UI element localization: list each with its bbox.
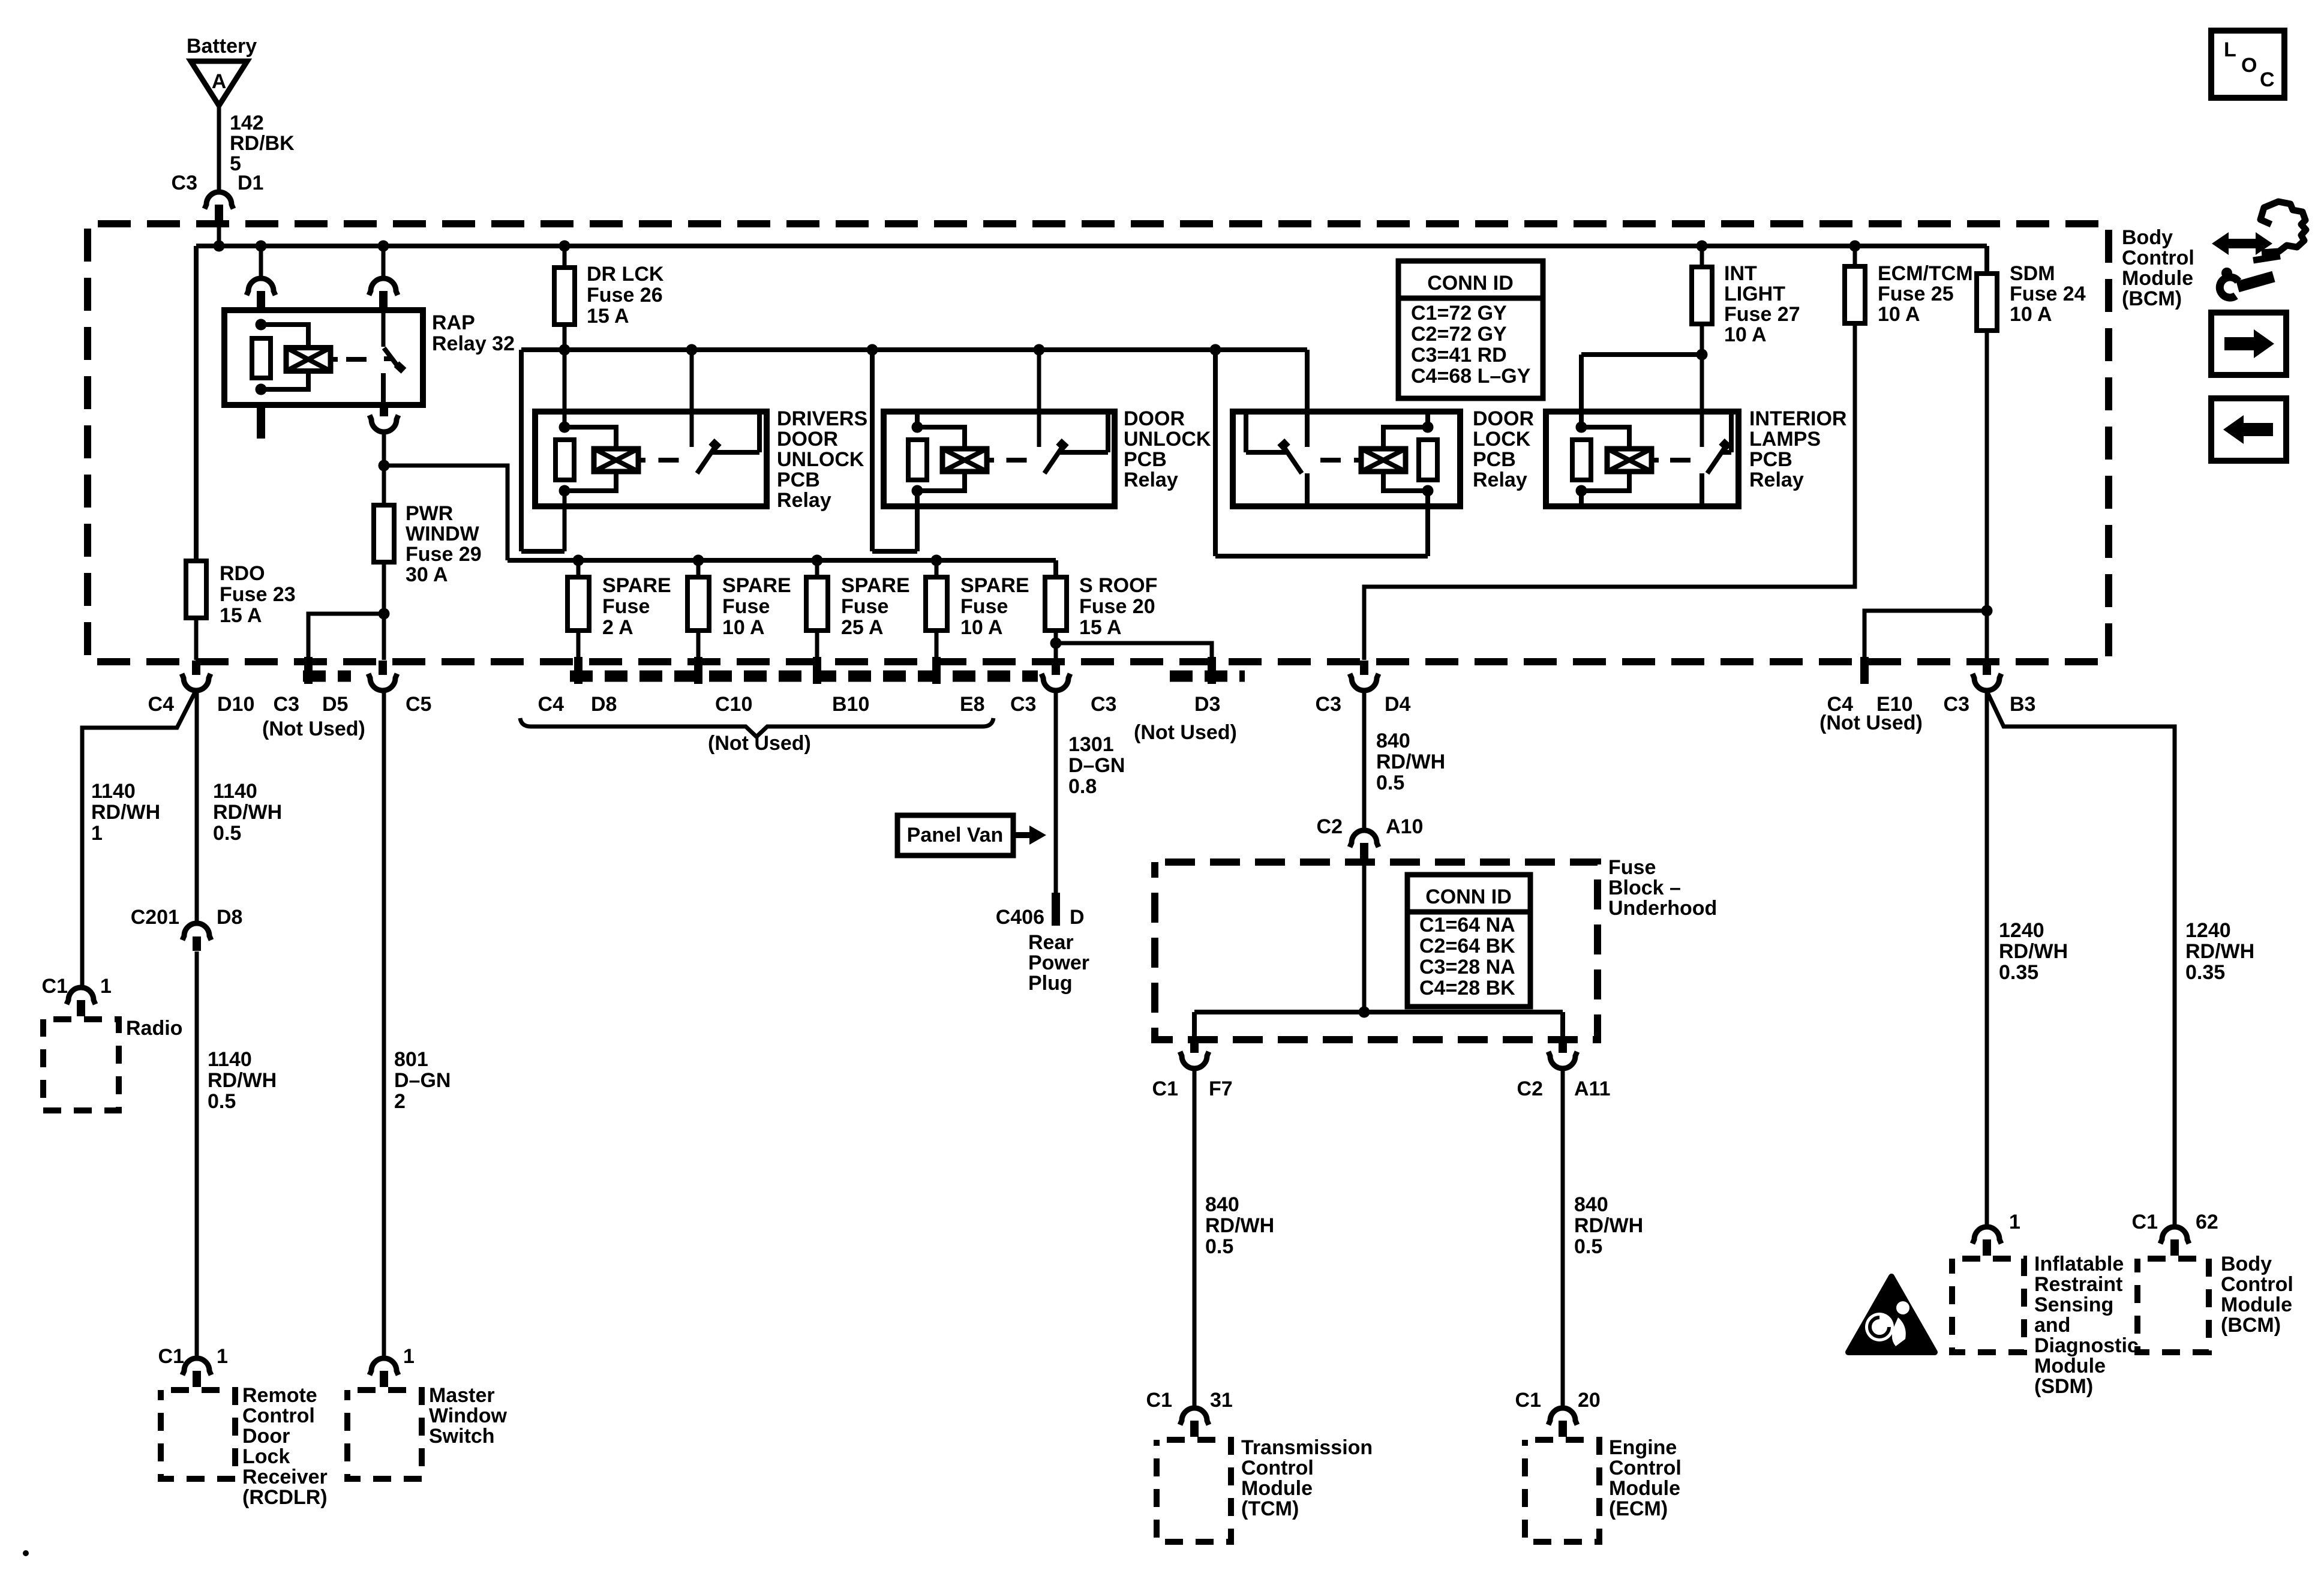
fuse SPARE 2 A xyxy=(568,560,671,639)
svg-text:C: C xyxy=(2260,68,2275,91)
unused connector strip dashes xyxy=(303,671,1245,682)
CONN ID table BCM xyxy=(1398,261,1543,398)
svg-text:Relay: Relay xyxy=(777,489,831,512)
svg-text:Fuse: Fuse xyxy=(960,595,1008,618)
svg-text:C3: C3 xyxy=(172,172,197,194)
svg-text:C3=41 RD: C3=41 RD xyxy=(1411,344,1507,367)
svg-text:Lock: Lock xyxy=(242,1445,290,1468)
wire bus to relay1 switch xyxy=(690,350,694,447)
wire to not-used pin E10 xyxy=(1864,611,1987,660)
svg-text:Module: Module xyxy=(2221,1293,2292,1316)
svg-text:UNLOCK: UNLOCK xyxy=(1124,428,1211,451)
wire bus loop to relay3 coil return xyxy=(1215,350,1428,556)
arrow right legend box xyxy=(2211,313,2286,375)
connector C1 pin 1 RCDLR xyxy=(158,1345,228,1387)
svg-text:Fuse: Fuse xyxy=(722,595,770,618)
svg-text:SPARE: SPARE xyxy=(722,574,791,597)
wire RAP output to spare fuse bus xyxy=(384,466,508,560)
svg-text:C3: C3 xyxy=(1316,693,1341,716)
svg-text:RAP: RAP xyxy=(432,311,475,334)
junction spare fuse 4 xyxy=(931,555,942,566)
svg-text:1: 1 xyxy=(91,822,103,845)
svg-text:15 A: 15 A xyxy=(220,604,262,627)
svg-text:(Not Used): (Not Used) xyxy=(708,732,811,755)
connector RAP relay coil input xyxy=(247,246,275,307)
svg-text:15 A: 15 A xyxy=(587,305,629,328)
svg-text:INTERIOR: INTERIOR xyxy=(1749,407,1846,430)
svg-text:Fuse: Fuse xyxy=(841,595,888,618)
svg-text:Module: Module xyxy=(1241,1477,1313,1500)
svg-text:L: L xyxy=(2224,38,2236,61)
svg-text:31: 31 xyxy=(1210,1389,1233,1412)
svg-text:Window: Window xyxy=(429,1404,508,1427)
wire DR LCK to relay1 coil xyxy=(563,350,567,427)
wire to not-used pin D3 xyxy=(1056,643,1212,660)
connector C3 pin D1 into BCM xyxy=(172,172,264,244)
svg-text:Fuse: Fuse xyxy=(1608,856,1656,879)
svg-text:CONN ID: CONN ID xyxy=(1425,885,1512,908)
connector C1 pin 1 Radio xyxy=(42,975,112,1016)
wire 142 RD/BK from battery xyxy=(217,106,221,190)
svg-text:LIGHT: LIGHT xyxy=(1724,283,1785,305)
svg-text:RD/WH: RD/WH xyxy=(1574,1214,1643,1237)
connector RAP switch output xyxy=(370,402,398,466)
Body Control Module (BCM) dashed outline xyxy=(88,224,2109,662)
connector C4 pin D10 xyxy=(148,661,255,716)
svg-text:O: O xyxy=(2241,54,2257,77)
svg-text:(Not Used): (Not Used) xyxy=(1134,721,1237,744)
pin C3 D5 not used xyxy=(262,657,365,740)
label Rear Power Plug xyxy=(1028,931,1089,995)
svg-text:1301: 1301 xyxy=(1068,733,1114,756)
Remote Control Door Lock Receiver (RCDLR) box xyxy=(161,1384,328,1509)
wire 1240 RD/WH 0.35 to SDM xyxy=(1987,690,2068,1224)
fuse SDM Fuse 24 10A xyxy=(1977,262,2086,331)
junction bus DR LCK xyxy=(559,241,571,252)
wire 1140 RD/WH 0.5 to C201 xyxy=(197,690,282,923)
svg-text:(RCDLR): (RCDLR) xyxy=(242,1486,328,1509)
svg-text:Fuse 23: Fuse 23 xyxy=(220,583,296,606)
fuse INT LIGHT Fuse 27 10A xyxy=(1692,246,1800,346)
svg-text:10 A: 10 A xyxy=(1724,323,1767,346)
svg-text:C1: C1 xyxy=(1152,1077,1178,1100)
svg-text:S ROOF: S ROOF xyxy=(1079,574,1157,597)
junction bus relay2 switch xyxy=(1034,344,1045,356)
svg-text:A11: A11 xyxy=(1574,1077,1611,1100)
svg-text:62: 62 xyxy=(2196,1211,2218,1233)
svg-text:Diagnostic: Diagnostic xyxy=(2034,1334,2139,1357)
svg-text:RD/BK: RD/BK xyxy=(230,132,295,155)
svg-text:0.5: 0.5 xyxy=(1376,772,1404,794)
svg-text:1: 1 xyxy=(100,975,112,998)
svg-text:Master: Master xyxy=(429,1384,495,1407)
wire bus loop to relay2 coil return xyxy=(872,350,917,551)
svg-text:Battery: Battery xyxy=(187,35,257,58)
svg-text:840: 840 xyxy=(1205,1193,1239,1216)
svg-text:LOCK: LOCK xyxy=(1473,428,1531,451)
connector pin 1 SDM xyxy=(1972,1211,2020,1256)
svg-text:10 A: 10 A xyxy=(960,616,1003,639)
svg-text:Sensing: Sensing xyxy=(2034,1293,2113,1316)
svg-text:PCB: PCB xyxy=(1124,448,1167,471)
svg-text:Fuse 25: Fuse 25 xyxy=(1878,283,1954,305)
svg-text:C3: C3 xyxy=(274,693,299,716)
Engine Control Module (ECM) box xyxy=(1525,1436,1682,1542)
wire to not-used pin D5 xyxy=(308,614,384,660)
wire INT LIGHT to relay4 xyxy=(1581,324,1702,447)
junction spare fuse 3 xyxy=(812,555,823,566)
svg-text:E8: E8 xyxy=(960,693,985,716)
svg-text:2: 2 xyxy=(394,1090,406,1113)
svg-text:15 A: 15 A xyxy=(1079,616,1122,639)
svg-text:Module: Module xyxy=(1609,1477,1680,1500)
svg-text:1140: 1140 xyxy=(208,1048,252,1071)
svg-text:Radio: Radio xyxy=(126,1017,182,1040)
svg-text:Switch: Switch xyxy=(429,1425,495,1448)
svg-text:INT: INT xyxy=(1724,262,1757,285)
svg-text:Relay 32: Relay 32 xyxy=(432,332,515,355)
relay INTERIOR LAMPS PCB Relay xyxy=(1546,407,1846,508)
svg-text:Body: Body xyxy=(2122,226,2173,249)
svg-text:RD/WH: RD/WH xyxy=(1376,751,1445,773)
brace not used group xyxy=(520,718,993,737)
svg-text:0.5: 0.5 xyxy=(1205,1235,1233,1258)
svg-text:DR LCK: DR LCK xyxy=(587,263,664,286)
svg-text:Relay: Relay xyxy=(1473,469,1527,491)
junction bus relay3 loop xyxy=(1210,344,1221,356)
svg-text:RD/WH: RD/WH xyxy=(208,1069,277,1092)
svg-text:Module: Module xyxy=(2122,267,2193,290)
svg-text:Block –: Block – xyxy=(1608,876,1681,899)
svg-text:(TCM): (TCM) xyxy=(1241,1497,1299,1520)
svg-text:30 A: 30 A xyxy=(406,563,448,586)
svg-text:20: 20 xyxy=(1578,1389,1601,1412)
svg-text:C2=64 BK: C2=64 BK xyxy=(1419,935,1515,957)
svg-text:Fuse 24: Fuse 24 xyxy=(2010,283,2086,305)
svg-text:D1: D1 xyxy=(238,172,263,194)
connector C1 pin 31 TCM xyxy=(1146,1389,1233,1437)
svg-text:Fuse: Fuse xyxy=(602,595,650,618)
wire spare fuse bus xyxy=(508,560,1056,577)
svg-text:0.35: 0.35 xyxy=(1999,961,2038,984)
wire 840 RD/WH 0.5 to ECM xyxy=(1563,1069,1643,1406)
hand with wrench icon xyxy=(2212,202,2306,298)
labels spare connector pins xyxy=(538,693,1037,716)
pin C4 E10 not used xyxy=(1819,657,1923,734)
junction RAP output to spare bus xyxy=(379,460,390,472)
svg-text:Fuse 20: Fuse 20 xyxy=(1079,595,1155,618)
svg-text:Fuse 29: Fuse 29 xyxy=(406,543,482,566)
pin spare fuse 3 not used xyxy=(813,631,821,684)
svg-text:WINDW: WINDW xyxy=(406,523,480,545)
fuse ECM/TCM Fuse 25 10A xyxy=(1845,246,1973,326)
svg-text:1: 1 xyxy=(217,1345,228,1368)
wire 1140 RD/WH 1 to Radio xyxy=(82,690,196,985)
svg-text:C5: C5 xyxy=(406,693,431,716)
pin spare fuse 4 not used xyxy=(932,631,941,684)
wire bus to relay2 switch xyxy=(1037,350,1041,447)
svg-text:C4: C4 xyxy=(148,693,175,716)
label Body Control Module (BCM) xyxy=(2122,226,2194,310)
connector C1 pin 62 BCM xyxy=(2132,1211,2218,1256)
svg-text:PCB: PCB xyxy=(1749,448,1792,471)
svg-text:A10: A10 xyxy=(1386,815,1423,838)
svg-text:10 A: 10 A xyxy=(1878,303,1920,326)
label wire 142 RD/BK 5 xyxy=(230,112,295,175)
fuse S ROOF Fuse 20 15A xyxy=(1045,574,1157,639)
svg-text:Fuse 26: Fuse 26 xyxy=(587,284,663,307)
svg-text:C1: C1 xyxy=(42,975,68,998)
LOC legend box xyxy=(2211,31,2284,98)
connector C1 pin 20 ECM xyxy=(1515,1389,1601,1437)
svg-text:D–GN: D–GN xyxy=(1068,754,1125,777)
svg-text:D: D xyxy=(1070,906,1085,929)
svg-text:C1=72 GY: C1=72 GY xyxy=(1411,302,1507,325)
svg-text:SDM: SDM xyxy=(2010,262,2055,285)
svg-text:SPARE: SPARE xyxy=(960,574,1029,597)
svg-text:0.5: 0.5 xyxy=(1574,1235,1602,1258)
svg-text:C1: C1 xyxy=(1515,1389,1541,1412)
svg-text:Restraint: Restraint xyxy=(2034,1273,2122,1296)
svg-text:Body: Body xyxy=(2221,1253,2272,1275)
Transmission Control Module (TCM) box xyxy=(1157,1436,1373,1542)
svg-text:0.5: 0.5 xyxy=(213,822,241,845)
label Fuse Block Underhood xyxy=(1608,856,1717,920)
wire PWR WINDW fuse to C5 xyxy=(382,562,386,660)
svg-text:1: 1 xyxy=(403,1345,415,1368)
svg-text:Panel Van: Panel Van xyxy=(907,824,1004,846)
arrow left legend box xyxy=(2211,398,2286,461)
svg-text:142: 142 xyxy=(230,112,264,134)
wire ECM/TCM fuse to connector D4 xyxy=(1364,323,1855,660)
svg-text:Plug: Plug xyxy=(1028,972,1073,995)
svg-text:A: A xyxy=(212,70,227,93)
Fuse Block Underhood dashed outline xyxy=(1155,862,1598,1040)
relay DRIVERS DOOR UNLOCK PCB Relay xyxy=(535,407,867,512)
svg-text:D5: D5 xyxy=(322,693,348,716)
junction fuse block split xyxy=(1359,1007,1370,1018)
svg-text:Control: Control xyxy=(1241,1457,1314,1479)
wire S ROOF fuse output xyxy=(1054,631,1058,660)
svg-text:Power: Power xyxy=(1028,951,1089,974)
connector C3 pin D4 xyxy=(1316,661,1411,716)
svg-text:840: 840 xyxy=(1376,730,1410,752)
svg-text:RD/WH: RD/WH xyxy=(91,801,160,824)
svg-text:(Not Used): (Not Used) xyxy=(1819,712,1923,734)
svg-text:D10: D10 xyxy=(217,693,254,716)
svg-text:(BCM): (BCM) xyxy=(2122,287,2182,310)
junction bus drivers switch xyxy=(686,344,698,356)
junction bus ECM/TCM xyxy=(1849,241,1861,252)
connector C5 xyxy=(368,661,431,716)
svg-text:10 A: 10 A xyxy=(2010,303,2052,326)
CONN ID table fuse block xyxy=(1407,875,1530,1007)
svg-text:Relay: Relay xyxy=(1749,469,1804,491)
svg-text:Rear: Rear xyxy=(1028,931,1074,954)
svg-text:C1: C1 xyxy=(1146,1389,1172,1412)
airbag warning triangle icon xyxy=(1848,1277,1935,1352)
svg-text:C1: C1 xyxy=(158,1345,184,1368)
junction S ROOF to D3 xyxy=(1050,638,1062,649)
svg-text:and: and xyxy=(2034,1314,2070,1337)
svg-text:Transmission: Transmission xyxy=(1241,1436,1373,1459)
junction spare fuse 2 xyxy=(693,555,704,566)
junction bus RAP coil xyxy=(256,241,267,252)
junction bus relay2 loop xyxy=(867,344,878,356)
svg-text:RDO: RDO xyxy=(220,562,265,585)
wire 801 D-GN 2 to Master Window Switch xyxy=(384,690,451,1356)
wire main battery bus xyxy=(196,246,1987,561)
svg-text:D8: D8 xyxy=(217,906,242,929)
svg-text:(Not Used): (Not Used) xyxy=(262,718,365,740)
svg-text:Control: Control xyxy=(2221,1273,2293,1296)
connector pin 1 Master Window Switch xyxy=(370,1345,415,1387)
svg-text:PCB: PCB xyxy=(1473,448,1516,471)
wire relay feed bus xyxy=(521,325,1307,551)
Master Window Switch box xyxy=(347,1384,508,1479)
connector C201 pin D8 xyxy=(131,906,243,951)
svg-text:DOOR: DOOR xyxy=(1124,407,1185,430)
fuse SPARE 10 A xyxy=(926,560,1029,639)
svg-text:Remote: Remote xyxy=(242,1384,317,1407)
svg-text:ECM/TCM: ECM/TCM xyxy=(1878,262,1973,285)
svg-text:1140: 1140 xyxy=(91,780,136,803)
fuse RDO Fuse 23 15A xyxy=(186,561,296,627)
svg-text:Control: Control xyxy=(2122,247,2194,269)
svg-text:RD/WH: RD/WH xyxy=(213,801,282,824)
svg-text:Fuse 27: Fuse 27 xyxy=(1724,303,1800,326)
Body Control Module (BCM) bottom box xyxy=(2137,1253,2293,1352)
svg-text:Engine: Engine xyxy=(1609,1436,1677,1459)
svg-text:C1=64 NA: C1=64 NA xyxy=(1419,914,1515,936)
svg-text:PWR: PWR xyxy=(406,502,453,525)
connector C2 pin A10 xyxy=(1317,815,1424,859)
svg-text:1240: 1240 xyxy=(2185,919,2231,942)
svg-text:D3: D3 xyxy=(1194,693,1220,716)
pin spare fuse 2 not used xyxy=(694,631,702,684)
svg-text:C406: C406 xyxy=(996,906,1044,929)
svg-text:B3: B3 xyxy=(2010,693,2035,716)
Inflatable Restraint SDM box xyxy=(1952,1253,2139,1398)
relay RAP Relay 32 xyxy=(224,310,515,405)
svg-text:C201: C201 xyxy=(131,906,179,929)
connector C3 pin B3 xyxy=(1944,661,2036,716)
junction battery feed xyxy=(214,241,225,252)
svg-text:C4: C4 xyxy=(538,693,565,716)
svg-text:SPARE: SPARE xyxy=(602,574,671,597)
svg-text:Inflatable: Inflatable xyxy=(2034,1253,2124,1275)
wire RDO fuse to connector C4 xyxy=(194,618,199,660)
Panel Van tag xyxy=(897,815,1046,855)
svg-text:SPARE: SPARE xyxy=(841,574,910,597)
pin RAP coil output stub xyxy=(257,403,265,439)
svg-text:C3: C3 xyxy=(1944,693,1969,716)
fuse SPARE 10 A xyxy=(687,560,791,639)
svg-text:1140: 1140 xyxy=(213,780,257,803)
connector RAP relay switch input xyxy=(369,246,398,307)
svg-text:D4: D4 xyxy=(1385,693,1411,716)
svg-text:C4=28 BK: C4=28 BK xyxy=(1419,977,1515,999)
wire 1301 D-GN 0.8 xyxy=(1056,690,1125,893)
svg-text:C2: C2 xyxy=(1317,815,1343,838)
svg-text:B10: B10 xyxy=(832,693,869,716)
svg-text:(SDM): (SDM) xyxy=(2034,1375,2093,1398)
wire 840 RD/WH 0.5 to fuse block xyxy=(1364,690,1445,828)
svg-text:2 A: 2 A xyxy=(602,616,633,639)
svg-text:D–GN: D–GN xyxy=(394,1069,451,1092)
junction D5 branch xyxy=(379,608,390,620)
svg-text:C1: C1 xyxy=(2132,1211,2158,1233)
svg-text:DRIVERS: DRIVERS xyxy=(777,407,867,430)
svg-text:Door: Door xyxy=(242,1425,290,1448)
connector C1 pin F7 xyxy=(1152,1038,1233,1100)
connector C3 sunroof feed xyxy=(1041,661,1116,716)
terminal C406 D xyxy=(996,893,1085,929)
svg-text:840: 840 xyxy=(1574,1193,1608,1216)
page dot xyxy=(23,1550,29,1556)
svg-text:UNLOCK: UNLOCK xyxy=(777,448,864,471)
junction bus RAP switch xyxy=(378,241,389,252)
svg-text:(ECM): (ECM) xyxy=(1609,1497,1668,1520)
svg-text:0.5: 0.5 xyxy=(208,1090,236,1113)
svg-text:CONN ID: CONN ID xyxy=(1427,272,1514,295)
relay DOOR LOCK PCB Relay xyxy=(1233,407,1534,506)
connector C2 pin A11 xyxy=(1517,1038,1611,1100)
junction DR LCK to relay bus xyxy=(559,344,571,356)
svg-text:801: 801 xyxy=(394,1048,428,1071)
junction spare fuse 1 xyxy=(573,555,584,566)
fuse PWR WINDW Fuse 29 30A xyxy=(374,466,482,586)
svg-text:C3: C3 xyxy=(1010,693,1036,716)
pin spare fuse 1 not used xyxy=(574,631,582,684)
svg-text:C3=28 NA: C3=28 NA xyxy=(1419,956,1515,978)
svg-text:RD/WH: RD/WH xyxy=(2185,940,2254,963)
svg-text:C3: C3 xyxy=(1091,693,1116,716)
svg-text:C2=72 GY: C2=72 GY xyxy=(1411,323,1507,346)
wire 1240 RD/WH 0.35 to BCM xyxy=(1987,691,2254,1224)
svg-text:C4=68 L–GY: C4=68 L–GY xyxy=(1411,365,1531,388)
svg-text:1240: 1240 xyxy=(1999,919,2044,942)
svg-text:Control: Control xyxy=(1609,1457,1682,1479)
fuse DR LCK Fuse 26 15A xyxy=(554,246,664,328)
svg-text:PCB: PCB xyxy=(777,469,820,491)
wire SDM fuse to connector B3 xyxy=(1985,331,1989,660)
svg-text:RD/WH: RD/WH xyxy=(1999,940,2068,963)
battery symbol A xyxy=(187,35,257,106)
svg-text:0.8: 0.8 xyxy=(1068,775,1097,798)
svg-text:Control: Control xyxy=(242,1404,315,1427)
Radio box xyxy=(43,1017,182,1110)
wire fuse block internal xyxy=(1194,864,1563,1040)
svg-text:10 A: 10 A xyxy=(722,616,765,639)
svg-text:F7: F7 xyxy=(1209,1077,1233,1100)
relay DOOR UNLOCK PCB Relay xyxy=(884,407,1211,506)
svg-text:Relay: Relay xyxy=(1124,469,1178,491)
svg-text:D8: D8 xyxy=(591,693,617,716)
svg-text:RD/WH: RD/WH xyxy=(1205,1214,1274,1237)
svg-text:LAMPS: LAMPS xyxy=(1749,428,1821,451)
junction bus INT LIGHT xyxy=(1697,241,1708,252)
junction E10 branch xyxy=(1981,605,1993,617)
svg-text:DOOR: DOOR xyxy=(777,428,838,451)
pin D3 not used xyxy=(1134,657,1237,744)
svg-text:25 A: 25 A xyxy=(841,616,884,639)
wire 1140 RD/WH 0.5 to RCDLR xyxy=(197,951,277,1356)
svg-text:0.35: 0.35 xyxy=(2185,961,2225,984)
wire relay1 coil return xyxy=(563,491,567,551)
wire 840 RD/WH 0.5 to TCM xyxy=(1194,1069,1274,1406)
svg-text:C10: C10 xyxy=(715,693,752,716)
